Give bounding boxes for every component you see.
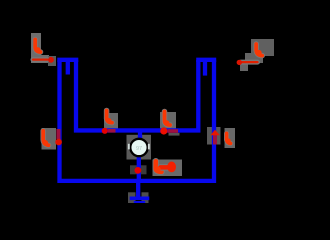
svg-text:97: 97 [136,146,142,152]
